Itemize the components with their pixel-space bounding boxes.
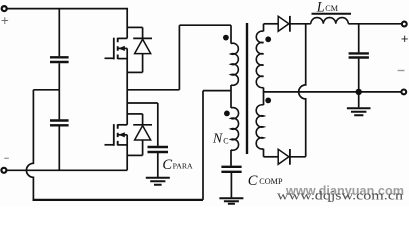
- transformer primary lead top: [230, 25, 232, 43]
- bottom rail: [33, 199, 204, 201]
- minus label output: [398, 70, 405, 72]
- svg-text:CM: CM: [325, 4, 338, 13]
- terminal + output: [402, 22, 407, 27]
- polarity dot Nc: [224, 111, 230, 117]
- junction dot output: [356, 89, 362, 95]
- capacitor C2 top lead: [58, 90, 60, 120]
- capacitor Cout lead top: [358, 24, 360, 53]
- svg-text:COMP: COMP: [259, 177, 283, 186]
- diode D3 out wire: [290, 23, 311, 25]
- transformer primary winding: [231, 43, 238, 85]
- inductor L_CM: [311, 18, 349, 24]
- diode D2: [133, 114, 152, 155]
- transformer secondary bottom winding: [256, 105, 263, 149]
- transformer secondary top lead: [263, 24, 265, 32]
- wire top rail: [7, 8, 127, 10]
- capacitor C_COMP lead bottom: [230, 173, 232, 198]
- svg-text:+: +: [401, 31, 409, 46]
- transistor Q2 channel segments: [117, 124, 119, 145]
- transistor Q1 source vertical: [126, 48, 128, 89]
- wire Nc to Ccomp: [230, 150, 232, 166]
- node cap midpoint wire: [33, 89, 59, 91]
- diode D2 loop top: [127, 113, 142, 115]
- inductor L_CM core bar: [312, 13, 352, 15]
- capacitor C1 top lead: [58, 9, 60, 57]
- diode D1 loop bottom: [127, 71, 142, 73]
- winding Nc: [231, 108, 239, 151]
- terminal + input: [2, 6, 7, 11]
- ground C_COMP: [219, 198, 243, 204]
- transformer core: [246, 23, 248, 154]
- svg-text:C: C: [223, 137, 228, 146]
- capacitor Cout lead bottom: [358, 59, 360, 92]
- capacitor Cout: [349, 53, 369, 57]
- transistor Q2 drain vertical: [126, 90, 128, 125]
- diode D4: [278, 149, 289, 164]
- minus label input: [4, 157, 9, 159]
- transistor Q1 gate bar: [113, 38, 115, 60]
- svg-text:L: L: [316, 0, 325, 15]
- transistor Q1 drain vertical: [126, 8, 128, 39]
- svg-text:C: C: [248, 173, 258, 189]
- capacitor C2: [50, 121, 69, 126]
- diode D4 wire: [264, 156, 279, 158]
- wire midpoint to primary: [127, 25, 231, 90]
- wire primary bottom to rail: [203, 91, 231, 200]
- svg-text:www.dqjsw.com.cn: www.dqjsw.com.cn: [277, 189, 404, 203]
- secondary bottom lead: [263, 149, 265, 157]
- svg-text:+: +: [1, 13, 9, 28]
- capacitor C1 bottom lead: [58, 63, 60, 90]
- polarity dot secondary bottom: [265, 98, 271, 104]
- center tap lead: [263, 88, 265, 106]
- polarity dot secondary top: [265, 36, 271, 42]
- diode D1 loop top: [127, 26, 142, 28]
- transistor Q2 gate bar: [113, 124, 115, 146]
- svg-text:PARA: PARA: [173, 162, 193, 171]
- wire terminal- to mosfet source: [7, 169, 128, 171]
- terminal - output: [401, 90, 406, 95]
- diode D4 out wire: [290, 156, 306, 158]
- wire to output plus: [348, 23, 401, 25]
- diode D3: [278, 16, 289, 31]
- wire to Cpara: [127, 102, 158, 104]
- transistor Q2 drain stub: [118, 124, 128, 126]
- capacitor C1: [50, 57, 69, 62]
- transistor Q2 body stub arrow: [118, 134, 128, 136]
- transistor Q1 source stub: [118, 58, 128, 60]
- ground C_PARA: [146, 178, 170, 185]
- transformer primary to Nc lead: [230, 85, 232, 108]
- diode D1: [133, 27, 152, 72]
- transistor Q1 drain stub: [118, 37, 128, 39]
- transistor Q2 source vertical: [126, 135, 128, 171]
- svg-text:N: N: [212, 132, 223, 147]
- terminal - input: [1, 168, 6, 173]
- transistor Q2 source stub: [118, 144, 128, 146]
- capacitor C_PARA lead top: [157, 103, 159, 146]
- ground output lead: [358, 92, 360, 107]
- transistor Q1 body stub arrow: [118, 47, 128, 49]
- diode D3 wire: [264, 23, 279, 25]
- svg-text:C: C: [162, 157, 172, 173]
- transformer secondary top winding: [256, 31, 263, 88]
- capacitor C_PARA: [148, 147, 169, 152]
- ground output: [347, 108, 371, 115]
- wire riser with hop over rail: [299, 24, 306, 157]
- output minus rail: [264, 91, 401, 93]
- diode D2 loop bottom: [127, 154, 142, 156]
- wire midpoint branch down with hop: [26, 90, 33, 200]
- transistor Q2 gate lead: [105, 144, 114, 146]
- transistor Q1 gate lead: [105, 57, 114, 59]
- polarity dot primary: [223, 35, 229, 41]
- capacitor C2 bottom lead: [58, 126, 60, 170]
- capacitor C_COMP: [221, 167, 241, 172]
- transistor Q1 channel segments: [117, 38, 119, 59]
- capacitor C_PARA lead bottom: [157, 153, 159, 177]
